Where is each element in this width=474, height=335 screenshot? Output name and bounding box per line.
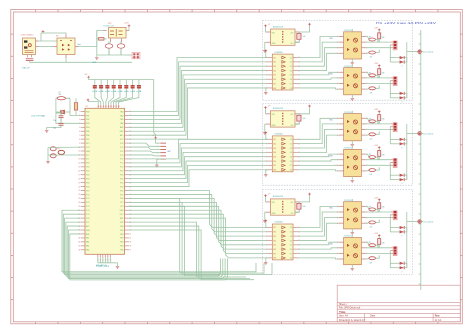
wires U1B outputs to optos [298,37,339,90]
U1B internal symbols [282,56,285,89]
svg-text:471: 471 [370,227,373,229]
opto U32 top pin [351,235,353,238]
optocoupler U31 body [344,202,362,229]
capacitor C-xtal1 [56,113,64,120]
wire +5V to U3A [265,197,268,202]
svg-text:PC2: PC2 [86,202,90,204]
svg-text:6: 6 [79,131,80,133]
ground symbol U3B [264,262,268,264]
svg-text:IN6: IN6 [273,249,276,251]
svg-text:0: 0 [402,271,403,273]
svg-text:PD0: PD0 [86,163,90,165]
wire U3B pin1 branch [266,222,268,227]
svg-text:U?: U? [268,194,270,196]
power flag +5V MCU [87,99,90,101]
svg-text:PC5: PC5 [120,147,124,149]
wire rail drop to gnd [96,55,98,57]
resistor Rh1 ch3-1 [366,206,378,212]
svg-text:IN2: IN2 [273,62,276,64]
jumper JP1 2x2 [132,52,140,59]
wire opto pin2 to conn ch1-1 [366,41,391,43]
svg-text:PD5: PD5 [120,178,124,180]
MCU right pin stubs [125,112,129,250]
opto U22 left pin stubs [337,154,343,173]
svg-text:IN3: IN3 [273,66,276,68]
PS1 pin bottom 1 [110,38,112,42]
svg-text:B0505S-1W: B0505S-1W [273,26,283,28]
svg-text:IN1: IN1 [273,139,276,141]
svg-text:15: 15 [78,167,80,169]
svg-text:PA3: PA3 [120,110,123,113]
svg-text:O7: O7 [290,165,292,167]
wire U3B gnd [266,258,268,262]
resistor RN8 pull-up [137,80,141,93]
svg-text:PC7: PC7 [120,139,124,141]
wire connector to trunk block 3 [421,221,423,223]
dashed boundary block 3 [262,190,412,275]
svg-text:O6: O6 [290,249,292,251]
svg-text:IN8: IN8 [273,88,276,90]
resistor Rh2 ch3-2 [366,255,379,259]
resistor Rv ch3-2 [378,237,381,248]
wire diode join vertical ch3-2 [404,263,407,267]
wire xtal rail A [56,98,81,123]
capacitor C-reset2 [50,154,56,158]
wire diode join vertical ch1-1 [404,58,407,62]
diode D2 ch3-2 [400,266,405,269]
wire bundle C MCU to block3 [129,191,268,258]
svg-text:PB2: PB2 [86,119,89,121]
dashed boundary block 2 [262,104,412,186]
svg-text:H1 +24V max 4A PIN +24V: H1 +24V max 4A PIN +24V [376,22,437,25]
ground symbol opto U31 [351,232,355,234]
wire reset bottom [48,154,81,156]
U2B internal symbols [282,138,285,171]
svg-text:0: 0 [402,147,403,149]
border division ticks top/bottom [36,10,438,324]
MCU bottom pin stubs [98,254,111,257]
wire crystal horizontal [56,111,61,113]
svg-text:PB2: PB2 [120,242,123,244]
svg-text:XT2: XT2 [86,155,89,157]
ground symbol U1B [264,92,268,94]
opto U11 left pin stubs [337,36,343,55]
svg-text:PD2: PD2 [120,190,124,192]
svg-text:1: 1 [79,111,80,113]
wire U1A output [299,26,309,33]
wires MCU right lower pins to band [129,198,254,279]
svg-text:GND: GND [272,125,277,127]
wire opto pin3 to conn ch3-1 [366,217,391,219]
isolated dc-dc U2A body [271,111,296,127]
ground symbol opto U22 [351,179,355,181]
svg-text:PB0: PB0 [120,250,123,252]
svg-text:(J,R) CRYSTAL: (J,R) CRYSTAL [31,115,46,118]
svg-text:18: 18 [78,178,80,180]
svg-text:GND: GND [92,62,97,64]
svg-text:22p: 22p [53,128,56,130]
svg-text:8: 8 [79,139,80,141]
wire J1 pin1 to bridge [39,40,57,42]
svg-text:R?: R? [369,72,371,74]
svg-text:20: 20 [78,186,80,188]
svg-text:PA6: PA6 [86,241,89,244]
svg-text:PD4: PD4 [86,178,90,180]
power flag +12V output [128,25,131,27]
wire to diode1 ch1-2 [390,92,399,94]
bridge pin right [75,46,79,48]
wire U2B gnd [266,170,268,174]
wires MCU to ISP [129,143,161,156]
svg-text:O2: O2 [290,143,292,145]
svg-text:33: 33 [78,238,80,240]
wire opto pin2 to conn ch3-1 [366,211,391,213]
ground symbol U2B [264,174,268,176]
wire RN2 to MCU top pin [101,93,103,105]
wire +5V to U1A [265,27,268,32]
resistor R-xtal2 vertical [74,98,77,115]
wire output to connector block 3 [407,221,418,223]
ground symbol below MCU [116,266,120,268]
svg-text:104: 104 [303,118,306,120]
capacitor C-out electrolytic [117,42,125,56]
opto U22 top pin [351,147,353,150]
svg-text:O3: O3 [290,66,292,68]
svg-text:PD3: PD3 [120,186,124,188]
svg-text:TLP521-2: TLP521-2 [344,200,352,202]
diode D1 ch2-2 [400,174,405,177]
svg-text:PS?: PS? [108,23,112,25]
MCU left pin stubs [81,112,85,250]
wire output to connector block 1 [407,51,418,53]
U2A pin names [272,114,295,127]
svg-text:44: 44 [108,106,110,108]
resistor RN5 pull-up [118,80,122,93]
svg-text:9: 9 [79,143,80,145]
wire conn rail down ch3-1 [389,215,391,232]
svg-text:24: 24 [78,202,80,204]
svg-text:13: 13 [78,159,80,161]
resistor RN2 pull-up [99,80,103,93]
power flag +12V top-left [42,31,45,33]
svg-text:Conn_01x02: Conn_01x02 [423,133,433,135]
svg-text:471: 471 [370,92,373,94]
optocoupler U21 body [344,114,362,141]
svg-text:22p: 22p [53,120,56,122]
svg-text:PB5: PB5 [86,131,89,133]
power flag +5V left of bus [87,76,90,78]
svg-text:PB1: PB1 [120,246,123,248]
capacitor C-in electrolytic [105,42,113,56]
ground symbol ISP [155,164,159,166]
wire to diode1 ch2-2 [390,174,399,176]
driver IC U3B body [272,224,293,260]
svg-text:IN7: IN7 [273,253,276,255]
svg-text:U?: U? [268,24,270,26]
resistor Rh2 ch3-1 [366,220,379,224]
svg-text:104: 104 [303,206,306,208]
svg-text:PD4: PD4 [120,182,124,184]
svg-text:47: 47 [115,106,117,108]
svg-text:TLP521-2: TLP521-2 [344,148,352,150]
svg-text:R?: R? [58,149,60,151]
wire crystal to rail B [65,111,70,113]
svg-text:36: 36 [78,249,80,251]
svg-text:5: 5 [79,127,80,129]
opto U12 right pin stubs [361,72,367,91]
capacitor below J1 [26,58,34,60]
wire to gnd below MCU [117,263,119,266]
opto U11 right pin stubs [361,36,367,55]
svg-text:IN6: IN6 [273,161,276,163]
wire rail to jumper [127,54,132,56]
wire U3A gnd [265,212,266,220]
svg-text:O3: O3 [290,236,292,238]
svg-text:40: 40 [129,238,131,240]
svg-text:TLP521-2: TLP521-2 [344,66,352,68]
svg-text:35: 35 [78,246,80,248]
J1 pin 4 stub bottom [31,55,33,58]
PS1 pin bottom 2 [121,38,123,42]
ground symbol opto U32 [351,268,355,270]
wire PS1 out to +12V [128,27,130,30]
svg-text:+VO: +VO [290,32,294,34]
resistor Rh2 ch1-2 [366,85,379,89]
svg-text:PB3: PB3 [86,123,89,125]
MCU bottom pin numbers [97,259,111,261]
svg-text:Title:: Title: [339,310,346,314]
svg-text:19: 19 [78,182,80,184]
svg-text:O7: O7 [290,83,292,85]
svg-text:xQ6A: xQ6A [124,90,130,93]
wire trunk vertical far right [420,30,422,290]
wire to diode2 ch1-2 [390,97,399,99]
power flag +24V ch3-1 [378,199,381,201]
wire +5V to ISP pin1 [156,139,161,143]
svg-text:PC4: PC4 [86,210,90,212]
svg-text:471: 471 [370,174,373,176]
wire RN8 to MCU top pin [119,93,139,105]
power flag +5V U2A [264,107,267,109]
svg-text:O1: O1 [290,57,292,59]
diode D-reset [58,150,64,154]
svg-text:GND: GND [86,151,91,153]
svg-text:PC4: PC4 [120,151,124,153]
ground symbol opto U12 [351,98,355,100]
svg-text:IN2: IN2 [273,232,276,234]
svg-text:xQ3A: xQ3A [105,90,111,93]
wire to diode1 ch3-2 [390,262,399,264]
dashed boundary block 1 [262,21,412,101]
svg-text:39: 39 [129,242,131,244]
wire output rail vertical block 1 [406,42,408,98]
wire to diode2 ch2-1 [390,143,399,145]
capacitor C U3A [295,202,301,212]
wire RN3 to MCU top pin [106,93,108,105]
svg-text:xQ7A: xQ7A [130,90,136,93]
U1B left pins [266,57,276,90]
svg-text:xQ4A: xQ4A [111,90,117,93]
ISP header J2 pin stubs [157,143,166,161]
diode D1 ch3-1 [400,226,405,229]
wire J1 pin2 to bridge [39,46,54,48]
wire diode join vertical ch3-1 [404,228,407,232]
wire conn rail down ch1-2 [389,81,391,98]
border division ticks left/right [11,34,463,300]
svg-text:41: 41 [129,234,131,236]
wire output rail vertical block 3 [406,212,408,268]
U1B right pins [290,57,300,90]
svg-text:PD5: PD5 [86,182,90,184]
svg-text:GND: GND [86,230,91,232]
opto U31 right pin stubs [361,206,367,225]
MCU right pin numbers [129,111,131,251]
wire to diode1 ch2-1 [390,138,399,140]
svg-text:PC0: PC0 [120,167,124,169]
svg-text:PB0: PB0 [86,111,89,113]
U3B internal symbols [282,226,285,259]
connector K31 3-pin [390,211,397,220]
wires U3B outputs to optos [298,206,339,259]
svg-text:Bac: Bac [78,44,81,46]
MCU top pin stubs [98,105,118,109]
svg-text:XT1: XT1 [86,159,89,161]
svg-text:PA2: PA2 [120,114,123,117]
svg-text:IN1: IN1 [273,227,276,229]
opto U21 top pin [351,111,353,114]
title block frame [337,285,460,322]
svg-text:R?: R? [369,118,371,120]
svg-text:ULN2803: ULN2803 [275,134,283,136]
resistor RN6 pull-up [124,80,128,93]
resistor Rh1 ch1-2 [366,72,378,78]
resistor RN7 pull-up [131,80,135,93]
svg-text:O3: O3 [290,148,292,150]
svg-text:21: 21 [78,190,80,192]
wire bottom rail dcdc [97,54,127,56]
power flag +V iso U3A [308,193,311,195]
U2A pin stubs [266,114,299,124]
power flag U2B top [265,132,268,134]
svg-text:PB3: PB3 [120,238,123,240]
svg-text:38: 38 [129,246,131,248]
output connector P2 [418,132,421,135]
svg-text:IN3: IN3 [273,236,276,238]
svg-text:PA0: PA0 [120,122,123,125]
svg-text:PB6: PB6 [120,226,123,228]
svg-text:XT1: XT1 [120,202,123,204]
wire opto pin3 to conn ch1-2 [366,83,391,85]
opto U32 left pin stubs [337,242,343,261]
svg-text:O4: O4 [290,240,292,242]
svg-text:PC5: PC5 [86,214,90,216]
svg-text:IN5: IN5 [273,75,276,77]
wire reset top [48,146,81,148]
bridge rectifier B1 [57,38,75,55]
svg-text:O5: O5 [290,75,292,77]
svg-text:O2: O2 [290,62,292,64]
power flag +24V ch3-2 [378,235,381,237]
bridge pin left [54,46,58,48]
gnd rail wire bottom of power section [30,61,133,63]
svg-text:23: 23 [78,198,80,200]
svg-text:PC2: PC2 [120,159,124,161]
power flag +V iso U2A [308,105,311,107]
svg-text:104: 104 [303,36,306,38]
svg-text:Id: 1/1: Id: 1/1 [435,319,442,322]
resistor RN4 pull-up [112,80,116,93]
opto U31 left pin stubs [337,206,343,225]
svg-text:PB4: PB4 [86,127,89,129]
opto U11 bottom pin [351,59,353,62]
wire U1A gnd [265,42,266,50]
opto U31 top pin [351,199,353,202]
svg-text:3: 3 [79,119,80,121]
svg-text:IN3: IN3 [273,148,276,150]
wire trunk junction ticks [419,34,421,284]
isolated dc-dc U3A body [271,199,296,215]
wire +5V to U2A [265,109,268,114]
svg-text:O1: O1 [290,139,292,141]
diode D2 ch2-1 [400,142,405,145]
svg-text:O8: O8 [290,258,292,260]
diode D2 ch2-2 [400,178,405,181]
svg-text:O6: O6 [290,161,292,163]
wire RN4 to MCU top pin [108,93,113,105]
wire diode join vertical ch1-2 [404,93,407,97]
J1 pin 3 stub bottom [27,55,29,58]
wire conn rail down ch2-2 [389,163,391,180]
svg-text:PD6: PD6 [120,175,124,177]
svg-text:PC6: PC6 [86,218,90,220]
svg-text:7: 7 [79,135,80,137]
svg-text:O5: O5 [290,245,292,247]
U3A pin stubs [266,202,299,212]
svg-text:PC1: PC1 [86,198,90,200]
svg-text:O4: O4 [290,152,292,154]
wire to diode1 ch1-1 [390,57,399,59]
wire RN5 to MCU top pin [111,93,120,105]
power flag +24V ch2-1 [378,111,381,113]
wire to diode1 ch3-1 [390,227,399,229]
svg-text:xQ8A: xQ8A [136,90,142,93]
svg-text:25: 25 [78,206,80,208]
wires U2B outputs to optos [298,118,339,171]
connector K32 3-pin [390,247,397,256]
svg-text:xQ5A: xQ5A [117,90,123,93]
resistor Rh1 ch3-2 [366,242,378,248]
wire xtal rail B [70,98,81,115]
resistor R-xtal [56,97,70,100]
svg-text:TLP521-2: TLP521-2 [344,30,352,32]
power flag U1B top [265,50,268,52]
resistor Rh1 ch2-1 [366,118,378,124]
wire conn rail down ch2-1 [389,127,391,144]
svg-text:R?: R? [369,154,371,156]
svg-text:Rev:: Rev: [435,315,440,318]
wire bundle A MCU to block1 [129,58,268,140]
svg-text:+12V: +12V [124,23,129,25]
capacitor C U1A [295,32,301,42]
svg-text:PD6: PD6 [86,186,90,188]
ground symbol U1A [263,50,267,52]
svg-text:+VO: +VO [290,202,294,204]
svg-text:Sheet: /: Sheet: / [339,303,348,306]
MCU top pin numbers [98,106,120,108]
svg-text:R?: R? [369,206,371,208]
MCU right pin names [120,110,125,251]
power flag +24V ch1-2 [378,65,381,67]
